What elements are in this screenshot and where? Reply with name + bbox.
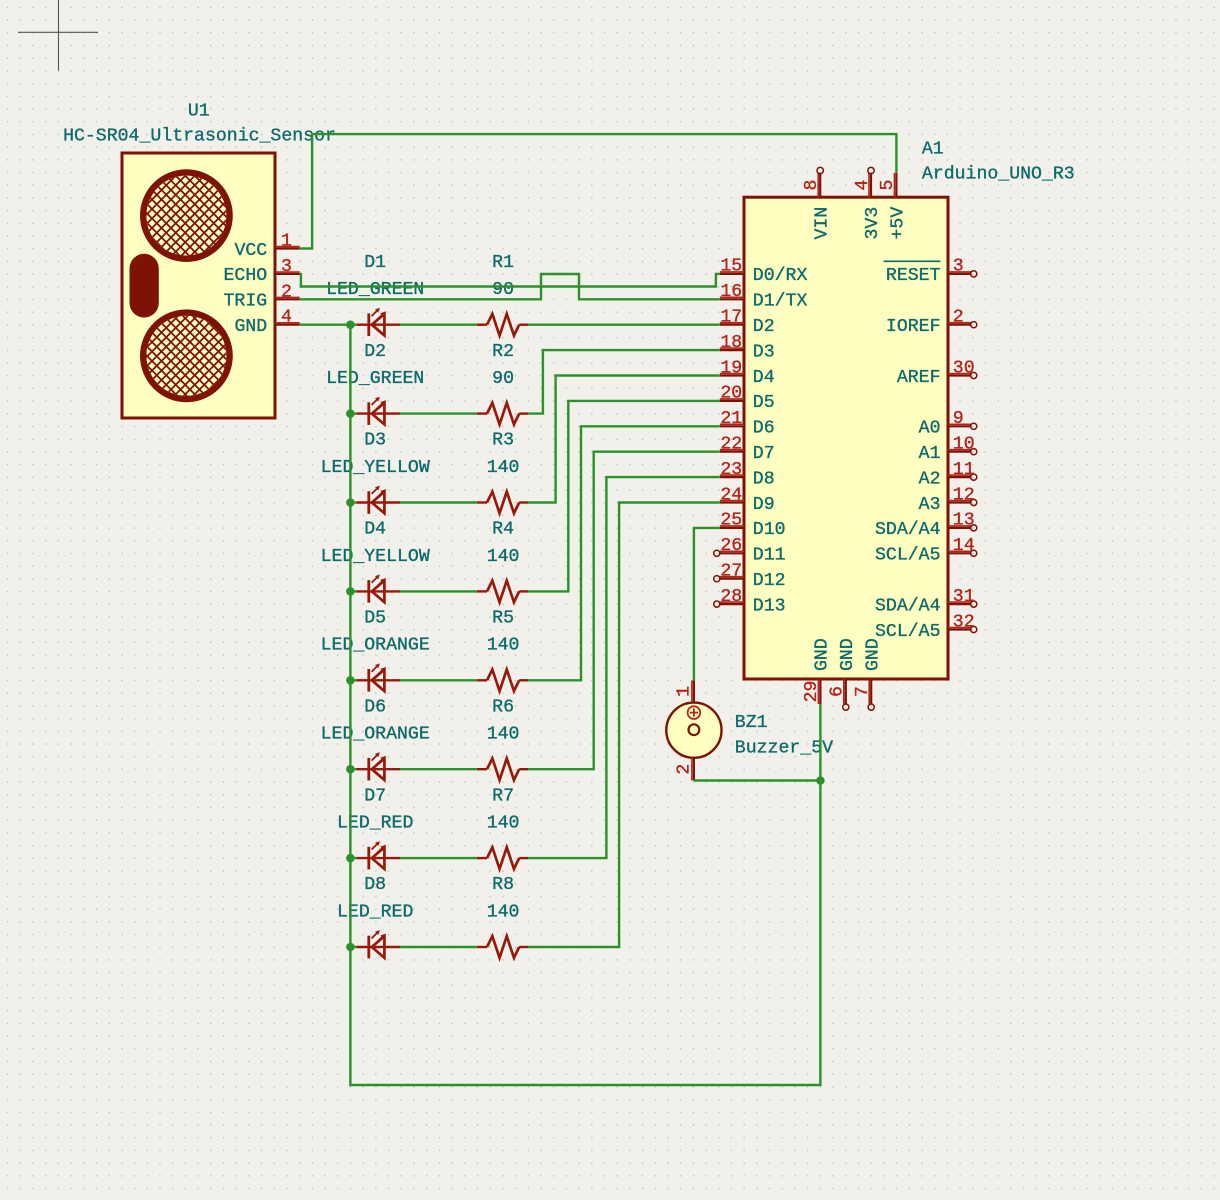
wire: GND rail to LED D5 anode <box>350 679 356 681</box>
svg-text:22: 22 <box>720 435 742 455</box>
svg-text:3: 3 <box>281 257 292 277</box>
LED D2 (LED_GREEN) <box>356 397 400 425</box>
svg-text:140: 140 <box>487 814 520 834</box>
junction: GND rail at LED D4 <box>346 587 355 596</box>
svg-text:140: 140 <box>487 547 520 567</box>
U1 pin 2 TRIG <box>224 282 300 311</box>
svg-text:19: 19 <box>720 358 742 378</box>
wire: GND rail to LED D8 anode <box>350 946 356 948</box>
svg-text:6: 6 <box>828 686 848 697</box>
sheet origin crosshair <box>18 0 98 71</box>
LED D5 (LED_ORANGE) <box>356 663 400 691</box>
svg-text:21: 21 <box>720 409 742 429</box>
svg-text:D9: D9 <box>753 495 775 515</box>
LED D7 (LED_RED) <box>356 841 400 869</box>
resistor R2 (90) <box>477 403 528 425</box>
wire: resistor R6 to arduino D7 <box>528 452 720 770</box>
svg-text:R1: R1 <box>492 253 514 273</box>
svg-text:A0: A0 <box>919 419 941 439</box>
wire GND rail: left vertical, bottom horizontal, riser to junction <box>350 325 820 1085</box>
svg-text:A2: A2 <box>919 469 941 489</box>
svg-text:D3: D3 <box>753 342 775 362</box>
svg-text:A1: A1 <box>922 139 944 159</box>
svg-text:2: 2 <box>675 764 695 775</box>
svg-text:1: 1 <box>675 686 695 697</box>
svg-text:140: 140 <box>487 636 520 656</box>
svg-text:90: 90 <box>492 369 514 389</box>
A1 pin 32 SCL/A5 <box>875 612 977 642</box>
svg-text:5: 5 <box>878 180 898 191</box>
svg-text:30: 30 <box>953 358 975 378</box>
svg-text:15: 15 <box>720 257 742 277</box>
sensor U1 body <box>122 153 275 418</box>
wire: buzzer pin2 to GND junction <box>694 779 821 781</box>
wire: LED D4 to resistor R4 <box>400 590 477 592</box>
svg-text:D4: D4 <box>753 368 775 388</box>
svg-text:D8: D8 <box>753 469 775 489</box>
svg-text:A3: A3 <box>919 495 941 515</box>
wire: GND rail to LED D1 anode <box>350 324 356 326</box>
junction: GND rail at LED D7 <box>346 854 355 863</box>
svg-text:25: 25 <box>720 511 742 531</box>
svg-text:9: 9 <box>953 409 964 429</box>
A1 pin 9 A0 <box>919 409 977 439</box>
svg-text:Arduino_UNO_R3: Arduino_UNO_R3 <box>922 165 1075 185</box>
LED D6 (LED_ORANGE) <box>356 752 400 780</box>
svg-text:R7: R7 <box>492 786 514 806</box>
svg-text:140: 140 <box>487 458 520 478</box>
svg-text:3: 3 <box>953 257 964 277</box>
svg-text:13: 13 <box>953 511 975 531</box>
junction: GND rail at LED D8 <box>346 943 355 952</box>
svg-text:1: 1 <box>281 232 292 252</box>
svg-text:11: 11 <box>953 460 975 480</box>
svg-text:23: 23 <box>720 460 742 480</box>
svg-text:A1: A1 <box>919 444 941 464</box>
A1 pin 6 GND (bottom) <box>828 638 858 710</box>
A1 pin 10 A1 <box>919 435 977 465</box>
BZ1 pin 2 <box>675 758 695 781</box>
wire: GND rail to LED D6 anode <box>350 768 356 770</box>
svg-text:D3: D3 <box>364 431 386 451</box>
svg-text:28: 28 <box>720 587 742 607</box>
svg-text:LED_GREEN: LED_GREEN <box>326 280 424 300</box>
A1 pin 13 SDA/A4 <box>875 511 977 541</box>
svg-text:R4: R4 <box>492 520 514 540</box>
A1 pin 3 RESET <box>884 257 977 287</box>
svg-text:2: 2 <box>281 282 292 302</box>
junction: GND rail at LED D3 <box>346 498 355 507</box>
junction: GND rail at LED D2 <box>346 409 355 418</box>
svg-text:D7: D7 <box>753 444 775 464</box>
svg-text:SDA/A4: SDA/A4 <box>875 520 941 540</box>
wire: LED D7 to resistor R7 <box>400 857 477 859</box>
svg-text:AREF: AREF <box>897 368 941 388</box>
svg-text:7: 7 <box>853 686 873 697</box>
svg-text:27: 27 <box>720 562 742 582</box>
A1 pin 7 GND (bottom) <box>853 638 883 710</box>
wire: resistor R4 to arduino D5 <box>528 401 720 592</box>
wire ECHO: sensor pin3 to arduino D0/RX <box>300 274 720 287</box>
wire: resistor R8 to arduino D9 <box>528 503 720 948</box>
svg-text:140: 140 <box>487 902 520 922</box>
A1 pin 27 D12 <box>714 562 786 592</box>
wire: resistor R2 to arduino D3 <box>528 350 720 414</box>
resistor R1 (90) <box>477 314 528 336</box>
svg-text:12: 12 <box>953 485 975 505</box>
wire TRIG: sensor pin2 to arduino D1/TX with hop <box>300 274 720 299</box>
wire VCC: sensor pin1 to arduino +5V <box>300 134 897 248</box>
svg-text:BZ1: BZ1 <box>735 713 768 733</box>
resistor R6 (140) <box>477 758 528 780</box>
A1 pin 20 D5 <box>720 384 775 414</box>
wire: LED D1 to resistor R1 <box>400 324 477 326</box>
svg-text:32: 32 <box>953 612 975 632</box>
svg-text:D0/RX: D0/RX <box>753 266 808 286</box>
svg-text:31: 31 <box>953 587 975 607</box>
A1 pin 26 D11 <box>714 536 786 566</box>
svg-text:GND: GND <box>838 638 858 671</box>
svg-text:29: 29 <box>802 681 822 703</box>
svg-text:17: 17 <box>720 308 742 328</box>
svg-text:D10: D10 <box>753 520 786 540</box>
A1 pin 30 AREF <box>897 358 977 388</box>
svg-text:R3: R3 <box>492 431 514 451</box>
svg-text:SDA/A4: SDA/A4 <box>875 596 941 616</box>
svg-text:TRIG: TRIG <box>224 292 268 312</box>
U1 pin 1 VCC <box>234 232 299 261</box>
svg-text:HC-SR04_Ultrasonic_Sensor: HC-SR04_Ultrasonic_Sensor <box>63 127 336 147</box>
A1 pin 8 VIN (top) <box>802 167 832 239</box>
svg-text:24: 24 <box>720 485 742 505</box>
LED D3 (LED_YELLOW) <box>356 486 400 514</box>
LED D4 (LED_YELLOW) <box>356 575 400 603</box>
svg-text:8: 8 <box>802 180 822 191</box>
A1 pin 4 3V3 (top) <box>853 167 883 239</box>
svg-text:18: 18 <box>720 333 742 353</box>
svg-text:LED_YELLOW: LED_YELLOW <box>321 547 430 567</box>
svg-text:R6: R6 <box>492 697 514 717</box>
resistor R8 (140) <box>477 936 528 958</box>
A1 pin 11 A2 <box>919 460 977 490</box>
svg-text:4: 4 <box>853 180 873 191</box>
U1 pin 3 ECHO <box>224 257 300 286</box>
svg-text:LED_RED: LED_RED <box>337 814 413 834</box>
svg-text:SCL/A5: SCL/A5 <box>875 622 941 642</box>
svg-text:LED_RED: LED_RED <box>337 902 413 922</box>
A1 pin 16 D1/TX <box>720 282 808 312</box>
wire: arduino D10 down to buzzer pin1 <box>694 528 720 680</box>
svg-text:SCL/A5: SCL/A5 <box>875 546 941 566</box>
wire: resistor R5 to arduino D6 <box>528 426 720 680</box>
arduino A1 body <box>744 197 948 679</box>
svg-text:140: 140 <box>487 725 520 745</box>
svg-text:D5: D5 <box>364 609 386 629</box>
svg-text:D2: D2 <box>753 317 775 337</box>
wire: LED D6 to resistor R6 <box>400 768 477 770</box>
svg-text:3V3: 3V3 <box>863 207 883 240</box>
A1 pin 29 GND (bottom) <box>802 638 832 704</box>
svg-text:Buzzer_5V: Buzzer_5V <box>735 738 833 758</box>
wire: GND rail to LED D7 anode <box>350 857 356 859</box>
svg-text:D1: D1 <box>364 253 386 273</box>
A1 pin 25 D10 <box>720 511 786 541</box>
A1 pin 22 D7 <box>720 435 775 465</box>
svg-text:ECHO: ECHO <box>224 266 268 286</box>
svg-text:IOREF: IOREF <box>886 317 941 337</box>
wire: resistor R1 to arduino D2 <box>528 324 720 326</box>
A1 pin 17 D2 <box>720 308 775 338</box>
svg-text:R5: R5 <box>492 609 514 629</box>
wire: GND rail to LED D3 anode <box>350 501 356 503</box>
junction: GND rail at LED D1 <box>346 320 355 329</box>
A1 pin 14 SCL/A5 <box>875 536 977 566</box>
svg-text:GND: GND <box>863 638 883 671</box>
svg-text:D2: D2 <box>364 342 386 362</box>
svg-text:D13: D13 <box>753 596 786 616</box>
svg-text:D5: D5 <box>753 393 775 413</box>
wire GND: junction up to arduino pin29 <box>819 704 821 781</box>
A1 pin 12 A3 <box>919 485 977 515</box>
resistor R3 (140) <box>477 492 528 514</box>
A1 pin 23 D8 <box>720 460 775 490</box>
junction: GND rail at LED D6 <box>346 765 355 774</box>
resistor R5 (140) <box>477 670 528 692</box>
svg-text:4: 4 <box>281 308 292 328</box>
svg-text:VCC: VCC <box>234 241 267 261</box>
wire: LED D3 to resistor R3 <box>400 501 477 503</box>
LED D8 (LED_RED) <box>356 930 400 958</box>
svg-text:GND: GND <box>234 317 267 337</box>
wire: LED D8 to resistor R8 <box>400 946 477 948</box>
svg-text:10: 10 <box>953 435 975 455</box>
wire: GND rail to LED D2 anode <box>350 412 356 414</box>
LED D1 (LED_GREEN) <box>356 308 400 336</box>
svg-text:D1/TX: D1/TX <box>753 292 808 312</box>
wire: LED D5 to resistor R5 <box>400 679 477 681</box>
svg-text:VIN: VIN <box>812 207 832 240</box>
svg-text:R2: R2 <box>492 342 514 362</box>
A1 pin 5 +5V (top) <box>878 173 908 240</box>
A1 pin 31 SDA/A4 <box>875 587 977 617</box>
U1 pin 4 GND <box>234 308 299 337</box>
wire: resistor R3 to arduino D4 <box>528 376 720 503</box>
buzzer BZ1 body <box>666 703 721 758</box>
svg-text:LED_ORANGE: LED_ORANGE <box>321 725 430 745</box>
wire: LED D2 to resistor R2 <box>400 412 477 414</box>
svg-text:LED_GREEN: LED_GREEN <box>326 369 424 389</box>
svg-text:GND: GND <box>813 638 833 671</box>
svg-text:26: 26 <box>720 536 742 556</box>
resistor R4 (140) <box>477 581 528 603</box>
wire GND: sensor pin4 to LED rail <box>300 324 351 326</box>
svg-text:LED_YELLOW: LED_YELLOW <box>321 458 430 478</box>
svg-text:14: 14 <box>953 536 975 556</box>
svg-text:D11: D11 <box>753 546 786 566</box>
svg-text:D6: D6 <box>364 697 386 717</box>
BZ1 pin 1 <box>675 680 695 702</box>
A1 pin 15 D0/RX <box>720 257 808 287</box>
junction: GND rail at LED D5 <box>346 676 355 685</box>
svg-text:2: 2 <box>953 308 964 328</box>
svg-text:D8: D8 <box>364 875 386 895</box>
svg-text:D6: D6 <box>753 419 775 439</box>
svg-text:D12: D12 <box>753 571 786 591</box>
wire: GND rail to LED D4 anode <box>350 590 356 592</box>
A1 pin 21 D6 <box>720 409 775 439</box>
svg-text:RESET: RESET <box>886 266 941 286</box>
A1 pin 18 D3 <box>720 333 775 363</box>
svg-text:20: 20 <box>720 384 742 404</box>
A1 pin 2 IOREF <box>886 308 977 338</box>
svg-text:D7: D7 <box>364 786 386 806</box>
svg-text:LED_ORANGE: LED_ORANGE <box>321 636 430 656</box>
svg-text:16: 16 <box>720 282 742 302</box>
resistor R7 (140) <box>477 847 528 869</box>
wire: resistor R7 to arduino D8 <box>528 477 720 858</box>
svg-text:U1: U1 <box>188 101 210 121</box>
junction: buzzer/GND net <box>816 776 825 785</box>
svg-text:+5V: +5V <box>889 207 909 240</box>
svg-text:90: 90 <box>492 280 514 300</box>
A1 pin 24 D9 <box>720 485 775 515</box>
svg-text:D4: D4 <box>364 520 386 540</box>
svg-text:R8: R8 <box>492 875 514 895</box>
A1 pin 28 D13 <box>714 587 786 617</box>
A1 pin 19 D4 <box>720 358 775 388</box>
